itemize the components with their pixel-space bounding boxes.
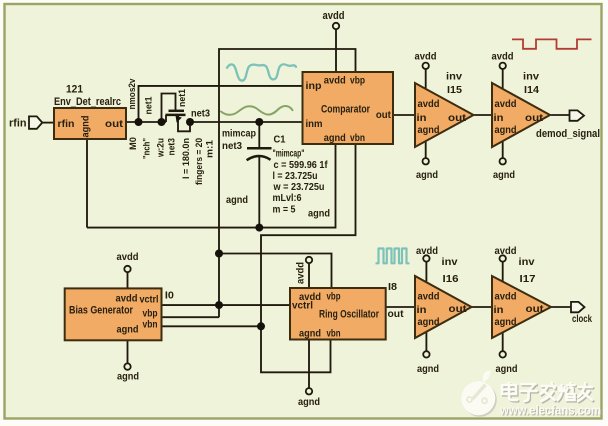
svg-text:inv: inv [442, 256, 458, 268]
watermark url www.elecfans.com [499, 403, 602, 418]
wire I15 agnd pin [425, 141, 427, 158]
svg-text:avdd: avdd [495, 245, 517, 257]
wire net3 to comparator inm [190, 121, 303, 123]
svg-text:inm: inm [306, 118, 323, 130]
svg-text:agnd: agnd [117, 324, 139, 336]
inverter I14 [492, 83, 550, 147]
svg-text:I8: I8 [388, 282, 397, 293]
svg-text:agnd: agnd [308, 208, 330, 220]
svg-text:agnd: agnd [298, 396, 320, 408]
wire M0 source bend [178, 115, 190, 131]
wire vbp branch to ring oscillator vbp [219, 254, 332, 289]
svg-text:"nch": "nch" [142, 138, 152, 159]
svg-text:in: in [494, 304, 504, 316]
svg-text:vbp: vbp [350, 75, 365, 87]
wire M0 gate bar [169, 110, 185, 113]
svg-text:net3: net3 [166, 138, 176, 156]
svg-text:net3: net3 [222, 141, 242, 152]
svg-text:net1: net1 [144, 96, 155, 115]
avdd terminal I16 [423, 255, 429, 261]
avdd terminal I15 [423, 63, 429, 69]
junction node vbp (ring osc branch) [215, 250, 223, 258]
svg-text:avdd: avdd [117, 251, 139, 263]
svg-text:avdd: avdd [323, 10, 345, 22]
svg-text:mLvl:6: mLvl:6 [273, 192, 302, 204]
agnd terminal ring oscillator [306, 388, 312, 394]
svg-text:M0: M0 [128, 137, 138, 150]
svg-text:avdd: avdd [495, 291, 517, 303]
svg-text:agnd: agnd [226, 194, 248, 206]
svg-text:vbn: vbn [143, 319, 158, 331]
port clock [571, 302, 585, 312]
svg-text:net1: net1 [177, 88, 188, 107]
svg-text:vctrl: vctrl [292, 300, 313, 312]
svg-text:fingers = 20: fingers = 20 [194, 138, 204, 185]
svg-text:avdd: avdd [495, 98, 517, 110]
svg-text:out: out [105, 118, 124, 130]
waveform detected envelope (green sine) [221, 106, 293, 115]
svg-text:agnd: agnd [117, 371, 139, 383]
svg-text:avdd: avdd [296, 262, 307, 284]
junction node net1 (gate tap) [158, 118, 166, 126]
wire I14 agnd pin [502, 141, 504, 158]
svg-text:net3: net3 [191, 108, 210, 119]
svg-text:out: out [448, 112, 467, 124]
svg-text:121: 121 [66, 84, 83, 96]
svg-text:agnd: agnd [299, 328, 321, 340]
svg-text:out: out [388, 308, 404, 320]
wire M0 gate loop [162, 94, 176, 123]
svg-text:I16: I16 [443, 273, 459, 285]
inverter I16 [415, 276, 472, 338]
svg-text:I17: I17 [520, 273, 536, 285]
svg-text:nmos2v: nmos2v [127, 78, 138, 110]
svg-text:rfin: rfin [9, 118, 27, 130]
wire comparator avdd pin [335, 29, 337, 72]
waveform AM envelope (teal) [227, 64, 296, 80]
waveform clock pulses (teal) [376, 249, 410, 264]
svg-text:www.elecfans.com: www.elecfans.com [499, 403, 601, 417]
svg-text:demod_signal: demod_signal [536, 128, 600, 140]
svg-text:Comparator: Comparator [321, 104, 371, 116]
port rfin [29, 116, 42, 128]
svg-text:I0: I0 [165, 291, 174, 302]
avdd terminal I17 [500, 255, 506, 261]
svg-text:avdd: avdd [418, 291, 440, 303]
wire M0 drain stub [165, 115, 167, 122]
agnd terminal I15 [423, 158, 429, 164]
svg-text:out: out [449, 303, 468, 315]
svg-text:vbn: vbn [327, 328, 341, 340]
junction node agnd (mimcap bottom) [255, 224, 263, 232]
block I0 Bias Generator [65, 288, 162, 340]
wire I15 avdd pin [425, 69, 427, 89]
wire vctrl from bias generator to ring oscillator [162, 304, 291, 306]
wire I15 out to I14 in [474, 114, 493, 116]
capacitor C1 top plate [247, 147, 272, 150]
wire agnd bus to comparator agnd [87, 144, 336, 228]
wire I17 out to clock port [551, 306, 571, 308]
svg-text:avdd: avdd [415, 51, 437, 63]
svg-text:I14: I14 [524, 84, 539, 96]
wire bias generator avdd pin [127, 272, 129, 288]
wire rfin input [42, 122, 54, 124]
junction node net1 (inp tap) [135, 118, 143, 126]
wire ring oscillator agnd pin [308, 340, 310, 389]
wire vbp riser and top run to comparator vbp [219, 49, 356, 317]
svg-text:inv: inv [519, 256, 535, 268]
junction node vbn [257, 322, 265, 330]
wire I14 out to demod_signal port [550, 114, 570, 116]
svg-text:rfin: rfin [58, 118, 75, 130]
svg-text:inp: inp [306, 80, 322, 92]
wire I16 avdd pin [425, 262, 427, 282]
block U_ENV Env_Det_realrc [54, 108, 126, 139]
junction node vbp/vctrl tie [215, 301, 223, 309]
wire net1 out of env-det [126, 121, 166, 123]
port demod_signal [570, 110, 585, 120]
svg-text:agnd: agnd [416, 169, 438, 181]
capacitor C1 curved plate [247, 156, 271, 160]
wire comparator out to inverter I15 [393, 114, 415, 116]
junction node net3 (mimcap top) [255, 118, 263, 126]
wire net1 branch to comparator inp [139, 86, 303, 122]
svg-text:out: out [526, 303, 545, 315]
svg-text:clock: clock [572, 313, 592, 325]
svg-text:vbn: vbn [350, 132, 365, 144]
agnd terminal bias generator [124, 363, 130, 369]
svg-text:Env_Det_realrc: Env_Det_realrc [54, 96, 121, 108]
wire vbn net comparator to ring oscillator [261, 144, 356, 372]
wire I16 out to I17 in [472, 306, 493, 308]
svg-text:out: out [525, 112, 544, 124]
avdd terminal I14 [500, 63, 506, 69]
svg-text:agnd: agnd [495, 124, 517, 136]
svg-text:in: in [417, 304, 427, 316]
avdd terminal (comparator) [333, 23, 339, 29]
wire M0 channel bar [166, 114, 186, 117]
wire bias generator vbn [162, 325, 262, 327]
svg-text:agnd: agnd [80, 116, 92, 138]
wire C1 bottom lead to agnd bus [258, 157, 260, 228]
wire ring oscillator avdd pin [308, 263, 310, 288]
svg-text:l = 180.0n: l = 180.0n [181, 138, 191, 179]
svg-text:vctrl: vctrl [140, 294, 159, 306]
svg-text:agnd: agnd [493, 169, 515, 181]
wire env-det agnd down [86, 139, 88, 228]
wire bias generator vbp [162, 316, 220, 318]
svg-text:in: in [494, 112, 504, 124]
svg-text:mimcap: mimcap [222, 129, 256, 140]
svg-text:out: out [376, 109, 391, 121]
inverter I15 [415, 83, 474, 147]
junction node net3 (source) [186, 118, 194, 126]
agnd terminal I17 [500, 351, 506, 357]
avdd terminal bias generator [124, 266, 130, 272]
svg-text:Ring Oscillator: Ring Oscillator [319, 308, 380, 320]
svg-text:vbp: vbp [327, 291, 341, 303]
svg-text:Bias Generator: Bias Generator [69, 305, 134, 317]
avdd terminal ring oscillator [306, 257, 312, 263]
svg-text:avdd: avdd [116, 293, 138, 305]
svg-text:agnd: agnd [418, 316, 440, 328]
wire ring oscillator out to I16 [386, 306, 415, 308]
svg-text:in: in [417, 112, 427, 124]
wire I16 agnd pin [425, 332, 427, 351]
block I8 Ring Oscillator [290, 288, 386, 340]
svg-text:avdd: avdd [416, 245, 438, 257]
wire C1 top lead [258, 122, 260, 148]
svg-text:avdd: avdd [324, 75, 346, 87]
svg-text:avdd: avdd [492, 51, 514, 63]
svg-text:inv: inv [523, 71, 539, 83]
svg-text:C1: C1 [274, 134, 286, 146]
inverter I17 [492, 276, 551, 338]
svg-text:m:1: m:1 [204, 140, 214, 158]
svg-text:agnd: agnd [417, 363, 439, 375]
waveform demodulated square (red) [512, 39, 592, 48]
svg-text:agnd: agnd [418, 124, 440, 136]
svg-text:agnd: agnd [495, 316, 517, 328]
agnd terminal I16 [423, 351, 429, 357]
wire I17 agnd pin [502, 332, 504, 351]
block U_CMP Comparator [303, 72, 394, 144]
svg-text:c = 599.96 1f: c = 599.96 1f [274, 159, 328, 171]
svg-text:agnd: agnd [324, 132, 346, 144]
M0 source arrow [176, 116, 182, 123]
watermark logo circle [461, 371, 497, 417]
watermark text 电子发烧友 (drawn strokes) [502, 383, 593, 402]
svg-text:inv: inv [446, 71, 462, 83]
agnd terminal I14 [500, 158, 506, 164]
wire I14 avdd pin [502, 69, 504, 89]
svg-text:l = 23.725u: l = 23.725u [273, 170, 318, 182]
svg-text:I15: I15 [447, 84, 462, 96]
svg-text:w:2u: w:2u [156, 138, 166, 158]
svg-text:agnd: agnd [496, 363, 518, 375]
svg-text:"mimcap": "mimcap" [273, 148, 305, 160]
wire bias generator agnd pin [127, 340, 129, 363]
wire I17 avdd pin [502, 262, 504, 282]
svg-text:avdd: avdd [418, 98, 440, 110]
svg-text:m = 5: m = 5 [273, 203, 296, 215]
